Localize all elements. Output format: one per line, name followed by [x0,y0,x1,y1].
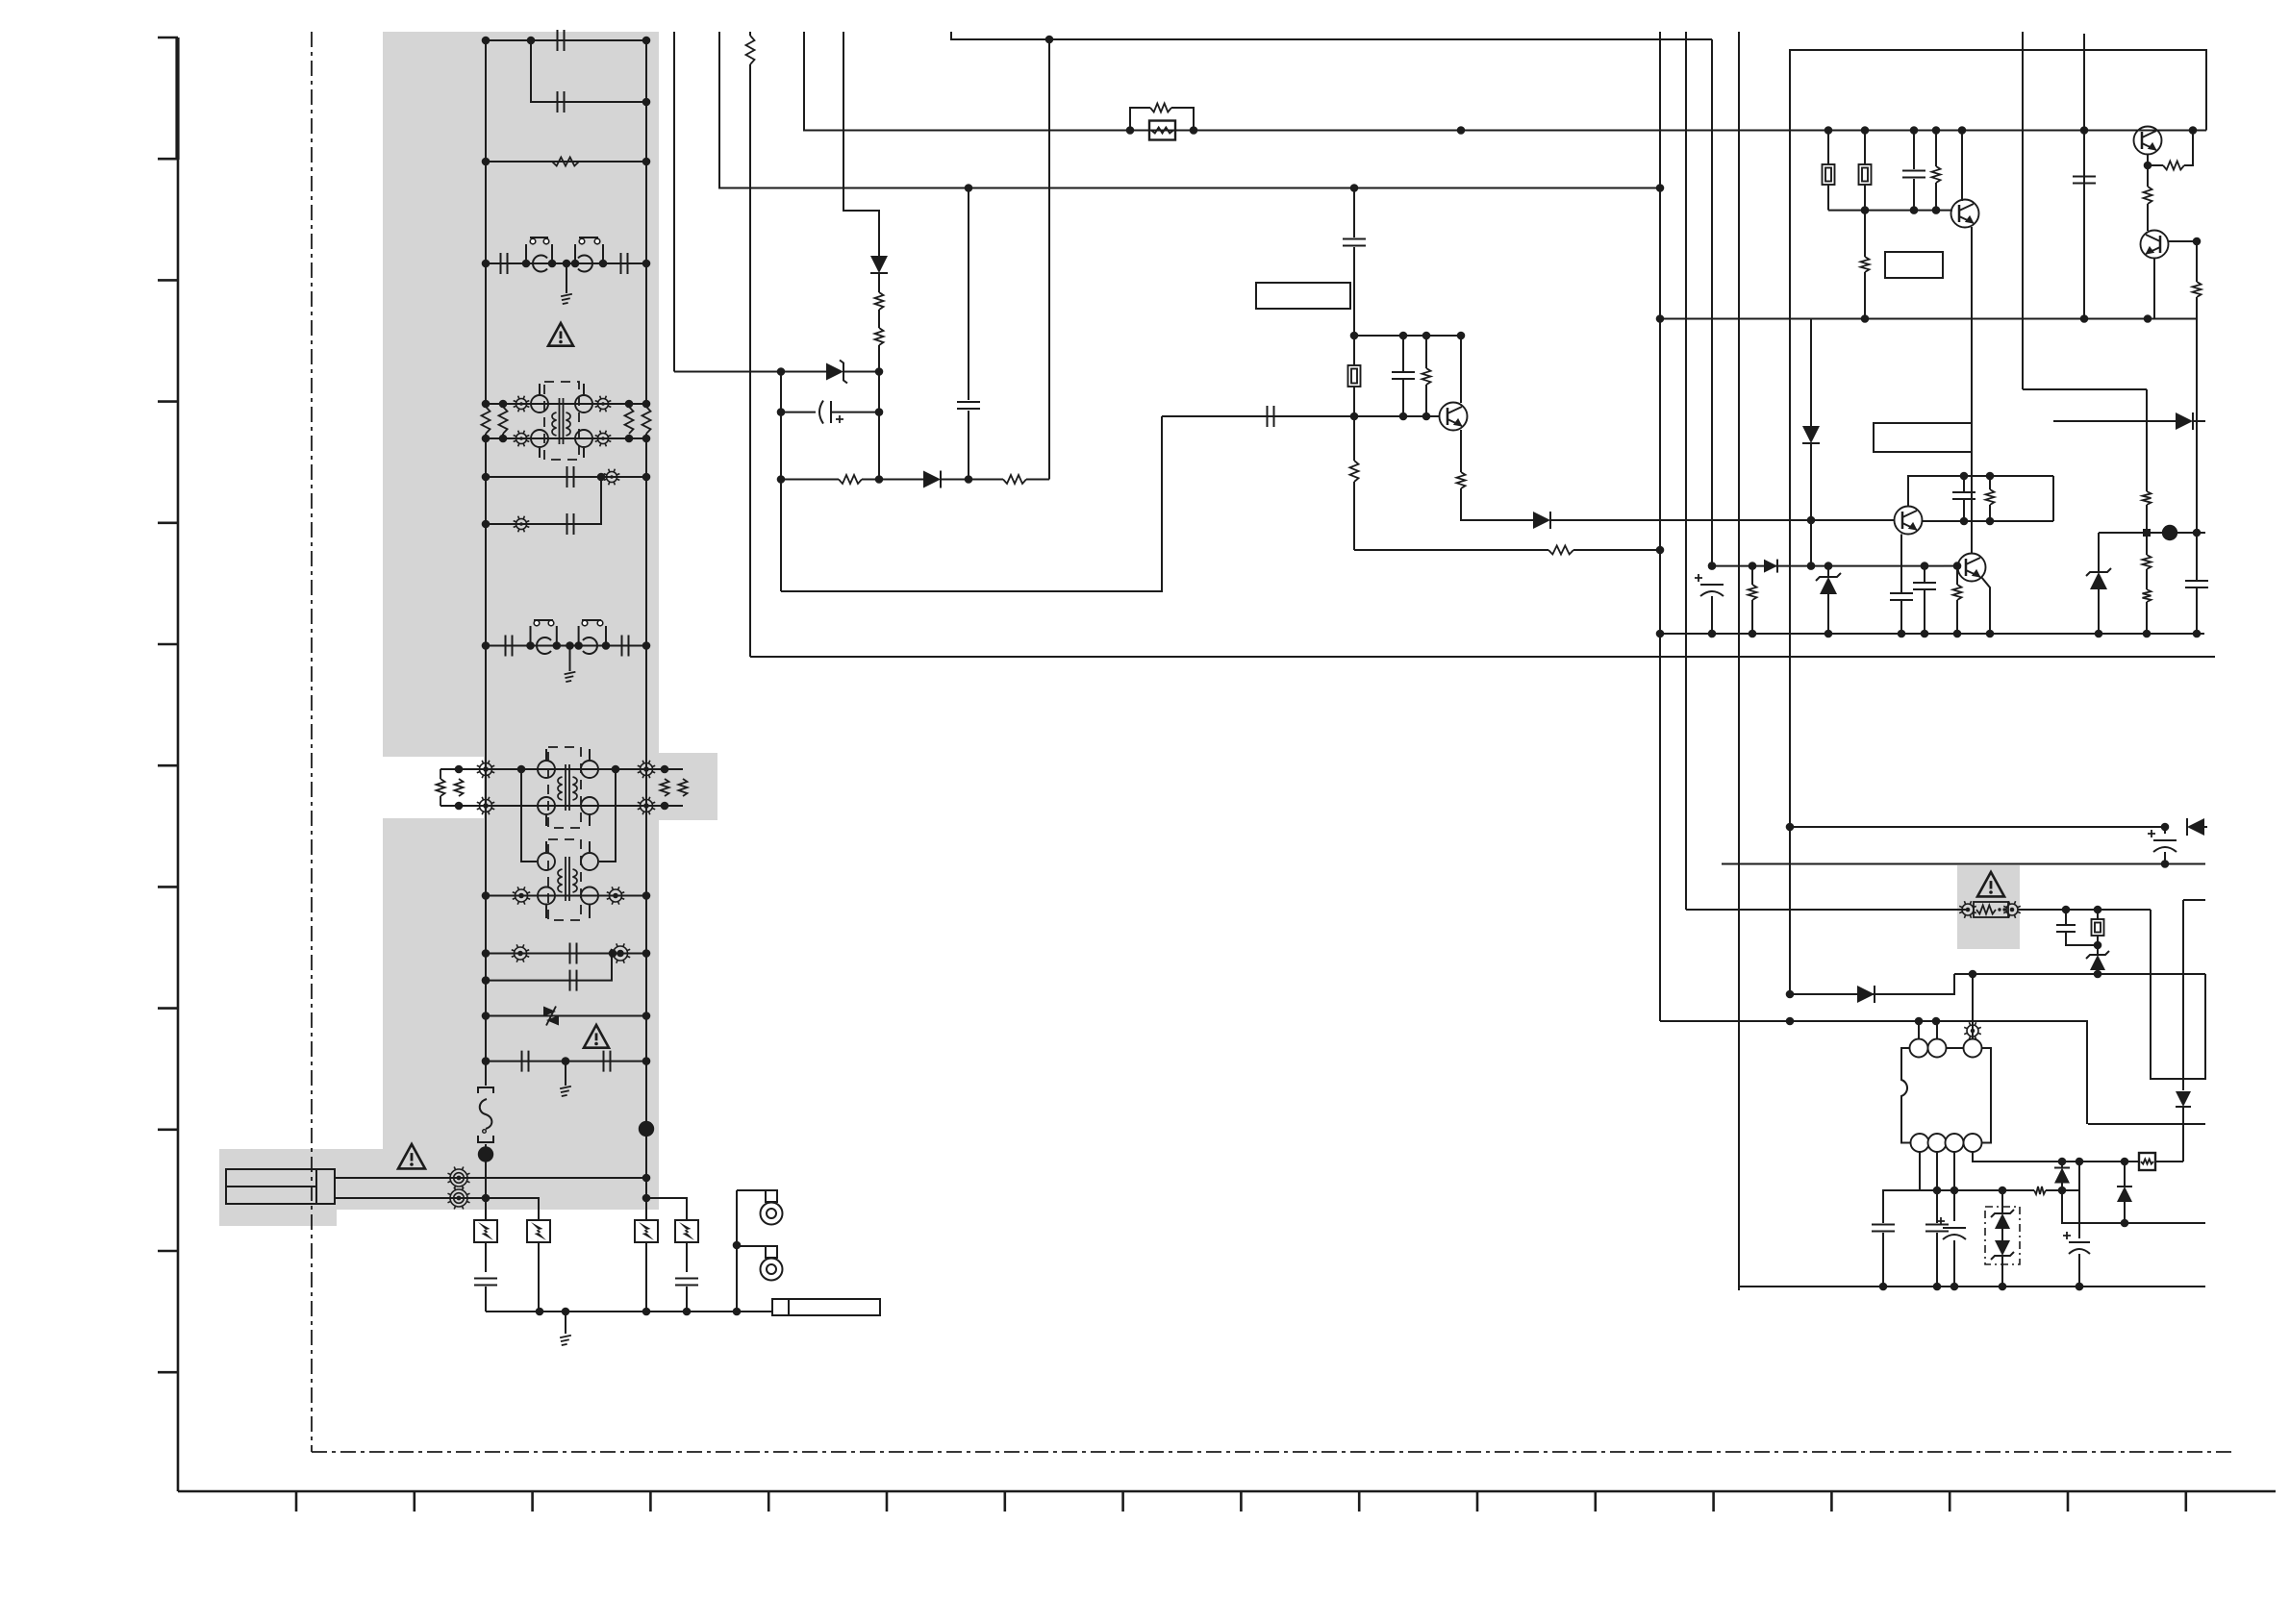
diac row y1056.5 [486,1015,646,1017]
big junction node on right bus [639,1121,654,1137]
thermal fuse on left bus [478,1087,493,1093]
wire Qmid emitter [1460,430,1462,472]
wire SA1 down to cap [485,1242,487,1272]
wire [843,371,879,373]
capacitor C_top2 [558,91,565,112]
dual zener dashed [1985,1207,2020,1264]
zener y386.5 [826,363,843,381]
row y498.5 [781,479,839,481]
left border tick marks [158,37,178,39]
wire x2135 upper [2052,476,2054,521]
cap x2001 [1924,566,1925,582]
warning triangle gray patch [1977,872,2004,896]
rail y52 [1789,50,2206,131]
IC body [1901,1048,1991,1143]
long return wire y683 [750,656,2215,658]
rail y41 [951,32,1712,39]
fuse holder bottom [772,1299,880,1315]
wire [2182,1107,2184,1162]
Qb emitter down [1981,577,1990,634]
wire Qtop3 emitter [2153,258,2155,319]
wire vertical x1861 [1789,50,1791,994]
wire [1810,442,1812,566]
resistor under emitter x1519 [1457,472,1466,488]
rail y860 [1790,826,2165,828]
wire [2046,1189,2079,1191]
wire pin a [1918,1021,1920,1039]
bead T1 left [514,396,530,412]
capacitor in base line [1268,406,1274,427]
bead on pin c [1964,1022,1981,1039]
fusible resistor vertical x1408 [1353,336,1355,365]
transformer T2 dashed outline [548,747,581,828]
resistor x2013 [1935,131,1937,167]
wire x2232 down chain [2146,389,2148,491]
big junction node on left bus [478,1146,493,1162]
rail y386.5 [674,371,827,373]
base rail y433 [1162,415,1440,417]
resistor R x914 a [875,292,884,310]
inductor L1b [578,256,592,272]
T3 winding circles [538,853,555,870]
wire SA4 down to cap [686,1242,688,1272]
wire [2155,1161,2183,1162]
wire diode to Qa base [1550,519,1894,521]
ground row1 [566,263,567,293]
bead T2 left pair [477,761,494,778]
T2 winding circles [538,761,555,778]
resistor R_bleed across line [486,161,646,162]
rail y1208 [2062,1161,2139,1162]
wire [1944,565,1957,567]
fusible resistor FR2 [1864,131,1866,165]
jumper link 2b [579,620,606,646]
resistor T2 far-right [679,779,688,796]
T1 core [560,398,564,444]
T2-T3 link right [599,769,616,862]
wire vertical x780 with resistor [749,32,751,36]
wire ecap [2164,827,2166,834]
wire [2164,852,2166,864]
dash-dot chassis boundary vertical [311,32,313,1452]
label box right-2 [1874,423,1972,452]
wire vertical x1780 [1711,39,1713,566]
wire SA3 down [645,1242,647,1312]
resistor T2 far-left [440,769,441,779]
T1 winding humps [552,412,557,436]
resistor R x914 b [875,328,884,345]
wire pin b [1936,1021,1938,1039]
IC top pins [1910,1039,1928,1058]
transistor Q-right-b [1958,554,1986,582]
rail y898.5 [1722,863,2205,865]
capacitor C_top1 (X-cap) [558,30,565,51]
transistor Q-top3 [2141,231,2169,259]
AC input connector [226,1169,335,1204]
resistor R parallel T1 left [502,404,504,407]
bottom rail y1338 [1739,1286,2205,1287]
inductor L2a [537,637,551,654]
capacitor on Qa emitter x1977 [1900,535,1902,593]
wire [1956,566,1958,585]
jumper link 2a [531,620,557,646]
gray shaded AC-line filter band [219,32,659,1226]
heavier frame segment top-left [175,37,179,160]
bead-resistor-bead component [1959,901,1976,918]
surge arrester SA1 [474,1220,497,1242]
wire vertical x2167 [2083,34,2085,316]
electrolytic C (horizontal) [819,401,843,424]
wire vertical x1808 [1738,32,1740,1290]
T1 rail upper [486,403,646,405]
staircase x2236 [2151,910,2205,1079]
T1 winding circles [531,395,548,412]
wire Qtop3 base right [2168,240,2197,242]
diode D (x914) [870,256,888,273]
diac / bidirectional trigger [543,1007,556,1017]
resistor T2 right [661,779,669,796]
pin3 branch [1953,1152,1955,1221]
resistor R parallel T1 right [625,407,634,434]
cap row y545 [486,477,601,524]
wire Qtop2 emitter [2147,154,2149,165]
diode D mid [1533,512,1550,529]
rail y438 [2053,420,2176,422]
resistor T2 left [458,778,460,780]
T2-T3 link left [521,769,537,862]
bead T2 right pair [638,761,655,778]
T2 core [566,764,569,811]
wire ring terminals drop [736,1190,738,1312]
capacitor x1990 [1913,131,1915,170]
resistor x1939 lower [1864,211,1866,257]
cap row y496 [486,476,646,478]
wire vertical x1726 [1659,32,1661,1021]
gray right protrusion at transformer T2 [659,753,717,820]
ring terminal lower [737,1245,767,1247]
T3 rail lower [486,895,646,897]
wire branch second X-cap [531,40,646,102]
capacitor on x1408 top [1353,188,1355,238]
capacitor x1459 [1402,336,1404,371]
wire vertical x1091 [1048,39,1050,480]
wire Qtop1 emitter down to Q2 [1971,227,1973,554]
jumper link 1b [575,237,603,263]
surge arrester SA2 [527,1220,550,1242]
wire vertical x1753 [1685,32,1687,910]
wire x1007 [968,188,969,401]
wire x914 [878,372,880,481]
wire [1026,479,1049,481]
rail y1169 [2088,1123,2205,1125]
bead connector line2 [448,1187,470,1210]
white notch in band at line-filter transformer [383,757,484,818]
cap x2148 [2065,910,2067,924]
transistor Q-top2 [2134,127,2162,155]
wire arrester4 to bus [646,1198,687,1220]
surge arrester SA4 [675,1220,698,1242]
wire x2284 down [2196,297,2198,533]
rail y331.5 [1660,318,2198,320]
rail y1013 [1954,973,2205,975]
page frame bottom border line [178,1490,2276,1493]
jumper link 1a [526,237,552,263]
capacitor (series) right row1 [621,253,628,274]
fusible resistor FR1 [1827,131,1829,165]
bead connector line1 [448,1167,470,1189]
rail y542 [1922,520,2053,522]
pin1 branch [1883,1152,1920,1223]
label box U-mid [1256,283,1350,309]
wire [1956,600,1958,634]
rail y1238 [1883,1189,2034,1191]
IC bottom pins [1911,1134,1929,1152]
wire [2001,1256,2003,1287]
capacitor below SA4 [675,1279,698,1286]
wire [2061,1162,2063,1190]
wire vertical x701 [673,32,675,372]
warning triangle at connector [398,1144,425,1168]
T3 core [566,857,569,901]
wire connector line 1 [335,1177,646,1179]
zener x2181 low [2090,955,2105,970]
ground row2 [569,646,571,672]
transistor Q-mid [1440,403,1468,431]
diode row y498.5 [923,471,941,488]
wire x812 [780,372,782,592]
dash-dot chassis boundary horizontal [312,1451,2231,1453]
cap x2042 [1963,476,1965,491]
wire [1711,596,1713,634]
x2209 diode [2124,1162,2126,1187]
inductor L2b [583,637,597,654]
wire [781,412,816,413]
resistor x1822 [1751,566,1753,585]
gray patch at bead-resistor (top right of IC section) [1957,865,2020,949]
rail y554 [2099,532,2205,534]
cap row y1019.6 [486,954,612,981]
wire x1883 from rail331 [1810,319,1812,428]
cap row y1103.6 [486,1061,646,1062]
capacitor x2167 [2073,177,2096,184]
wire [2193,420,2205,422]
wire vertical x877-x914 jog [843,32,879,257]
zener x2182 [2098,533,2100,572]
rail y1034 [1790,974,1954,994]
page frame left border line [177,37,180,1491]
wire connector line 2 [335,1198,539,1220]
diode y438 [2176,412,2193,430]
wire vertical x836 + rail y135.5 [804,32,2206,131]
resistor x2233 down [2147,165,2149,187]
resistor under x1408 [1353,416,1355,461]
fusible resistor in line y135 [1149,121,1175,140]
fusebox x2181 [2097,910,2099,919]
Qa collector [1908,476,2053,507]
wire x2270 [2182,900,2184,1090]
T2 rail lower [440,805,683,807]
diode x2144 [2054,1168,2070,1184]
wire SA2 down [538,1242,540,1312]
jumper-inductor row 1 [486,262,646,264]
diode y860 [2187,818,2204,836]
rail y659 [1660,633,2204,635]
transistor Q-top1 [1951,200,1979,228]
x2162 ecap [2078,1162,2080,1238]
wire Qtop1 collector [1961,131,1963,202]
transformer T1 dashed outline [544,382,579,460]
surge arrester SA3 [635,1220,658,1242]
bottom border tick marks [295,1491,298,1512]
wire vertical x748 + rail y195.5 [719,32,1660,188]
transistor Q-right-a [1895,507,1923,535]
rail y946 bead-resistor [1686,909,1966,911]
diode feed y588.6 [1712,565,1944,567]
ground stub bottom [565,1312,566,1334]
wire y936 [2183,899,2205,901]
zener x1901 [1827,566,1829,577]
wire [2001,1229,2003,1240]
ground row y1103 [565,1062,566,1086]
T1 rail lower [486,437,646,439]
capacitor x2284 [2196,533,2198,580]
wire [2184,131,2193,166]
resistor parallel pair over y135 rail [1130,108,1150,131]
rail y1272 [2062,1190,2205,1223]
wire emitter to diode [1461,488,1533,520]
transformer T3 dashed outline [548,839,581,920]
resistor line y572 [1354,549,1548,551]
wire [831,412,879,413]
warning triangle mid band [584,1025,609,1048]
resistor on right bus T1 [642,407,651,434]
pin2 branch [1936,1152,1938,1223]
inductor L1a [533,256,547,272]
cap row y991.5 [486,953,646,955]
node rail y349 [1354,335,1461,337]
jumper-inductor row 2 [486,645,646,647]
label box right-top [1885,252,1943,278]
wire top rail [486,39,646,41]
rail y1062 [1660,1021,2087,1124]
capacitor below SA1 [474,1279,497,1286]
wire [2018,909,2151,911]
resistor x1483 [1425,336,1427,368]
wire pin c [1972,974,1974,1039]
wire [941,479,1003,481]
resistor x2069 [1989,476,1991,489]
wire vertical x2103 [2022,32,2024,389]
wire [2001,1190,2003,1213]
wire [2196,241,2198,282]
small diode y588.6 [1764,560,1777,573]
ecap x1780 [1695,574,1724,596]
pin4 branch [1973,1152,2062,1162]
ring terminal upper [737,1189,767,1191]
wire AC bus right (neutral) [645,40,647,407]
wire base loop x1208 [781,416,1162,591]
diode y1034 [1857,986,1875,1003]
T2 rail upper [440,768,683,770]
wire [2148,164,2163,166]
capacitor (series) left row1 [501,253,508,274]
wire AC bus left (hot) [485,40,487,407]
wire x2103 corner y405 [2023,388,2147,390]
resistor on left bus T1 [482,407,491,434]
bottom safety rail [486,1311,772,1312]
warning triangle band upper [548,323,573,346]
wire Qmid collector [1460,335,1462,403]
wire [2204,826,2207,828]
rail y218.6 [1828,210,1952,212]
bead T1 right [595,396,612,412]
